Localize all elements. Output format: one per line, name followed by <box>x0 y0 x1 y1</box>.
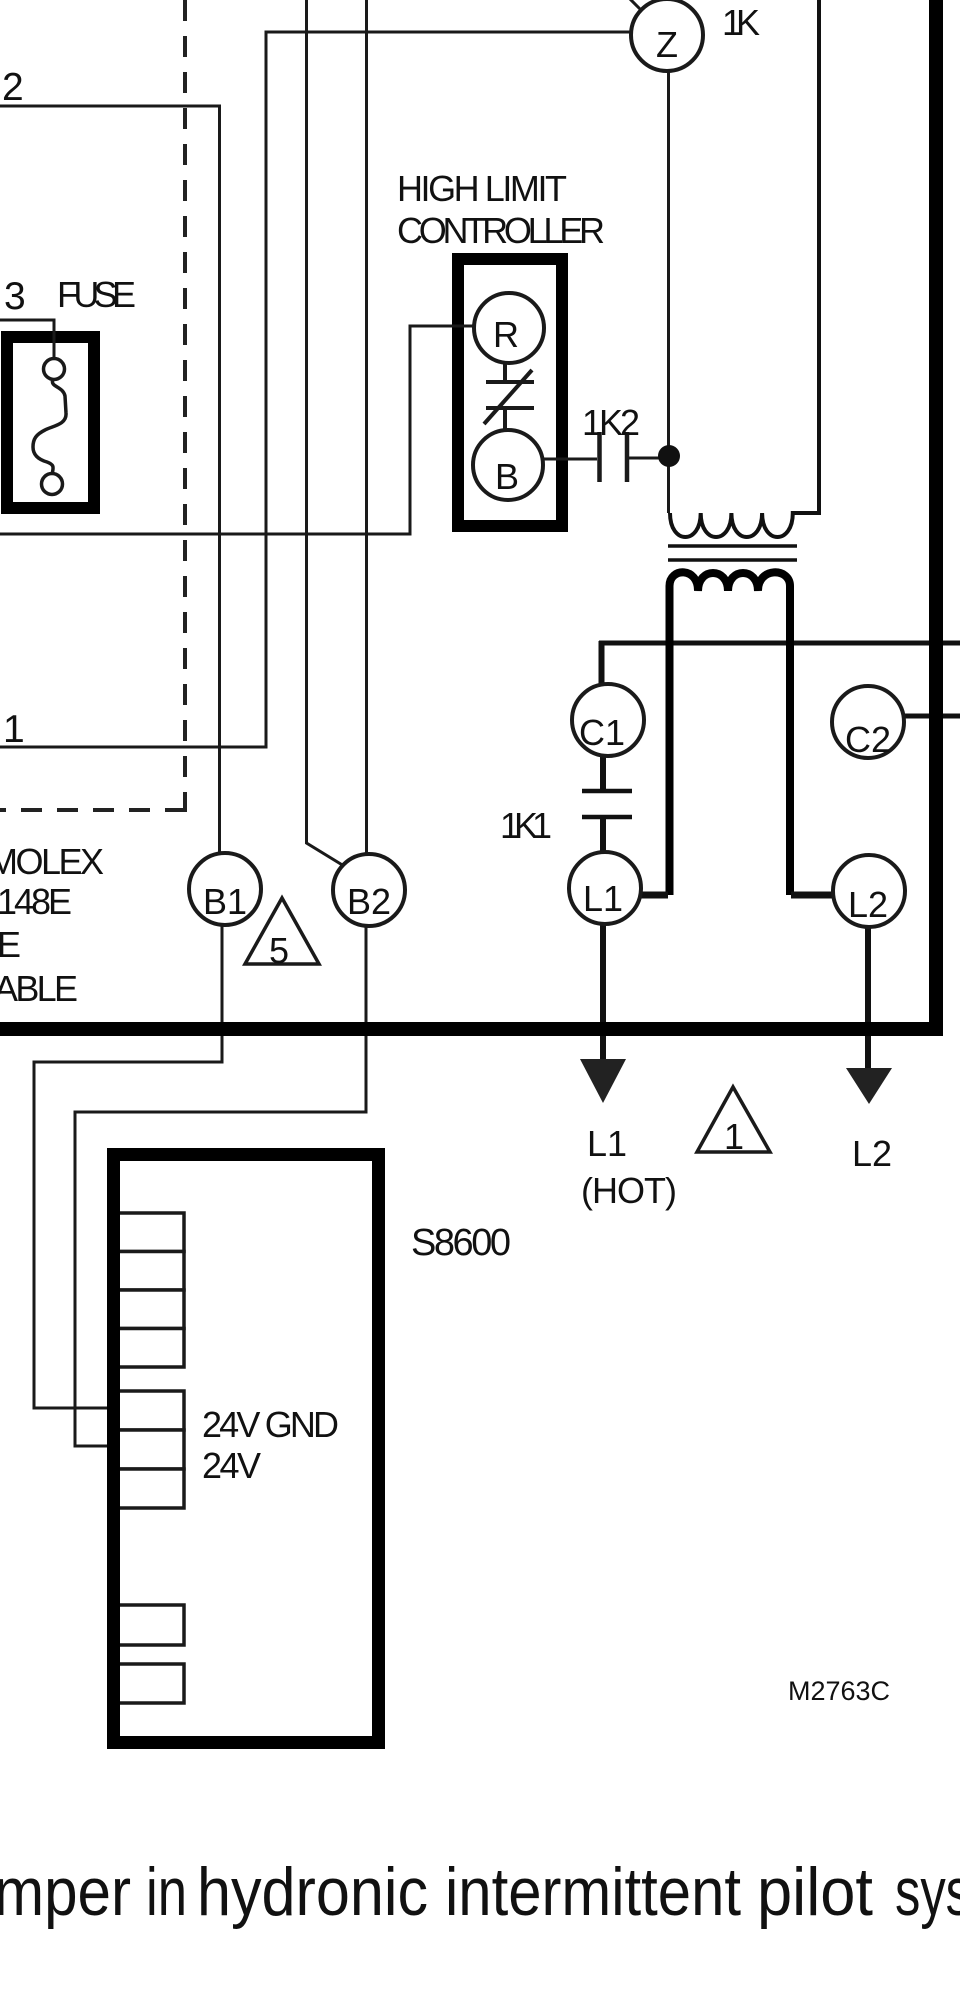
svg-text:24V: 24V <box>202 1445 261 1486</box>
S8600 connector tabs group B <box>112 1391 184 1508</box>
svg-text:1: 1 <box>3 708 25 751</box>
S8600 connector tab C <box>112 1605 184 1645</box>
wire L1 to secondary <box>640 892 668 899</box>
svg-text:M2763C: M2763C <box>788 1676 890 1706</box>
wire top vertical to B2 <box>365 0 368 855</box>
svg-text:FUSE: FUSE <box>57 274 136 315</box>
svg-text:mper: mper <box>0 1854 131 1930</box>
svg-text:R: R <box>493 314 519 355</box>
svg-text:3: 3 <box>4 275 26 318</box>
dashed boundary horizontal <box>0 808 186 812</box>
wire B2 below bus to S8600 24V <box>75 1036 366 1446</box>
junction dot <box>658 445 680 467</box>
terminal Z <box>631 0 703 71</box>
L2 arrow <box>865 1036 871 1070</box>
S8600 box <box>114 1155 379 1743</box>
svg-text:in: in <box>146 1854 187 1930</box>
wire fuse line to high limit R <box>0 326 476 534</box>
wire C1 to 1K1 <box>600 750 606 790</box>
transformer core <box>668 544 797 548</box>
wire B2 to bus <box>365 925 368 1024</box>
wire 1K2 to junction <box>629 457 668 460</box>
terminal L2 <box>833 855 905 927</box>
terminal L1 <box>569 852 641 924</box>
svg-text:intermittent: intermittent <box>445 1854 741 1930</box>
fuse box <box>7 337 94 508</box>
svg-text:1K2: 1K2 <box>582 402 640 443</box>
caption text <box>0 1854 960 1930</box>
transformer primary <box>670 0 819 537</box>
svg-text:pilot: pilot <box>757 1854 873 1930</box>
triangle note 1 <box>697 1087 770 1152</box>
wire L2 to bus <box>865 925 871 1024</box>
svg-text:L2: L2 <box>852 1133 892 1174</box>
triangle note 5 <box>245 898 319 964</box>
svg-text:LE: LE <box>0 924 21 965</box>
svg-text:C2: C2 <box>845 719 891 760</box>
S8600 connector tab D <box>112 1664 184 1703</box>
svg-text:hydronic: hydronic <box>197 1854 428 1930</box>
svg-text:C1: C1 <box>579 712 625 753</box>
svg-text:B: B <box>495 456 519 497</box>
svg-text:ABLE: ABLE <box>0 968 78 1009</box>
wire node 3 to fuse <box>0 320 54 358</box>
fuse element <box>33 359 66 495</box>
svg-text:1K: 1K <box>722 2 760 43</box>
svg-text:sys: sys <box>895 1854 960 1930</box>
dashed boundary vertical <box>183 0 187 812</box>
terminal B2 <box>333 854 405 926</box>
svg-text:1K1: 1K1 <box>500 805 552 846</box>
contact 1K1 <box>582 789 632 794</box>
svg-text:B2: B2 <box>347 881 391 922</box>
right border line <box>929 0 943 1036</box>
svg-text:MOLEX: MOLEX <box>0 841 104 882</box>
wire B to 1K2 <box>541 458 597 461</box>
svg-text:B1: B1 <box>203 881 247 922</box>
svg-text:HIGH LIMIT: HIGH LIMIT <box>397 168 567 209</box>
svg-text:CONTROLLER: CONTROLLER <box>397 210 605 251</box>
terminal C2 <box>832 686 904 758</box>
terminal B <box>473 430 543 500</box>
terminal R <box>474 293 544 363</box>
wire C1 top to right edge <box>599 641 960 646</box>
wire L1 to bus <box>600 920 606 1024</box>
L1 arrow <box>600 1036 606 1062</box>
wire stub into fuse <box>53 331 56 358</box>
svg-text:24V GND: 24V GND <box>202 1404 339 1445</box>
svg-text:S8600: S8600 <box>411 1222 511 1264</box>
svg-text:L2: L2 <box>848 884 888 925</box>
transformer secondary <box>670 572 791 895</box>
svg-text:L1: L1 <box>583 878 623 919</box>
wire node 1 to Z <box>0 32 631 747</box>
terminal C1 <box>572 684 644 756</box>
svg-text:2: 2 <box>2 66 24 109</box>
wire Z to transformer primary <box>667 70 670 513</box>
svg-text:1: 1 <box>724 1116 744 1157</box>
wire C2 to right edge <box>903 714 960 719</box>
high limit controller box <box>458 259 562 526</box>
wire 1K1 to L1 <box>600 818 606 855</box>
wire L2 to secondary <box>791 892 835 899</box>
svg-text:L1: L1 <box>587 1123 627 1164</box>
power bus line L1-L2 <box>0 1022 942 1036</box>
contact 1K2 <box>600 432 628 482</box>
S8600 connector tabs group A <box>112 1213 184 1367</box>
svg-text:Z: Z <box>656 24 678 65</box>
wire B1 to bus <box>221 924 224 1024</box>
svg-text:148E: 148E <box>0 881 72 922</box>
wire node 2 to B1 <box>0 106 220 853</box>
high limit contact symbol <box>484 362 534 431</box>
svg-text:5: 5 <box>269 930 289 971</box>
wire top vertical to B2 diagonal <box>307 0 345 866</box>
terminal B1 <box>189 853 261 925</box>
wire B1 below bus to S8600 24V GND <box>34 1036 222 1408</box>
svg-text:(HOT): (HOT) <box>581 1170 677 1211</box>
